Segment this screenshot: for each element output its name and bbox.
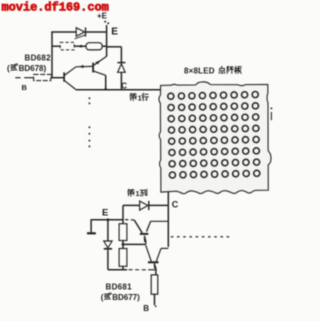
diode D2 C-E protection (cathode up) bbox=[117, 62, 125, 64]
diode D1 B-E (anode left) bbox=[76, 28, 84, 37]
resistor R1 internal (dashed body) bbox=[60, 42, 74, 50]
transistor Q1 small PNP bbox=[63, 72, 65, 81]
wire diode to collector rail bbox=[120, 72, 122, 90]
resistor R6 base series (bottom) bbox=[151, 275, 158, 294]
LED matrix board outline (torn edge) bbox=[159, 82, 271, 194]
transistor Q3 small NPN bbox=[134, 220, 142, 233]
wire base resistor to Q1 bbox=[51, 77, 64, 79]
svg-text:(: ( bbox=[7, 64, 10, 73]
resistor R5 lower bbox=[122, 244, 124, 248]
wire Q4 emitter to B resistor bbox=[155, 268, 157, 275]
node collector junction bbox=[105, 88, 107, 90]
svg-text:+E: +E bbox=[97, 12, 108, 21]
transistor Q2 power PNP bbox=[92, 63, 94, 73]
svg-text:B: B bbox=[22, 83, 28, 92]
wire emitter vertical to +E bbox=[106, 25, 108, 57]
svg-text:E: E bbox=[111, 27, 118, 38]
wire E to D4 bbox=[107, 220, 109, 241]
svg-text:1: 1 bbox=[136, 189, 140, 198]
wire top branch (E to C diode) bbox=[123, 204, 140, 206]
wire E rail dashed continuation bbox=[125, 219, 134, 221]
wire bottom rail partly dashed bbox=[129, 269, 149, 271]
svg-text:BD678): BD678) bbox=[19, 64, 47, 73]
svg-text:BD682: BD682 bbox=[25, 53, 52, 62]
wire junction to Q4 emitter node bbox=[123, 243, 146, 245]
svg-text:C: C bbox=[172, 199, 179, 209]
resistor R3 base series bbox=[34, 74, 51, 80]
wire left vertical bus bbox=[51, 31, 53, 78]
node junction dot between R1 R2 bbox=[80, 45, 83, 48]
LED matrix pads 8 rows bbox=[168, 91, 260, 178]
wire Q1 emitter to Q2 base with PNP arrow bbox=[76, 65, 93, 67]
svg-text:BD677): BD677) bbox=[112, 293, 140, 302]
resistor R4 upper bbox=[122, 220, 124, 224]
wire corner down from top branch bbox=[122, 205, 124, 220]
wire C rail vertical bbox=[167, 205, 169, 247]
wire resistor branch segment bbox=[52, 45, 60, 47]
svg-text:8×8LED: 8×8LED bbox=[184, 66, 215, 75]
label column wire 第1列 bbox=[128, 189, 134, 196]
wire collector rail to LED board row 1 bbox=[77, 89, 161, 91]
node E junction dot bbox=[106, 218, 109, 221]
wire B lead-in dashes bbox=[15, 77, 20, 79]
svg-text:C: C bbox=[121, 81, 127, 90]
label row wire 第1行 bbox=[130, 93, 136, 100]
resistor R2 internal (pill body) bbox=[86, 43, 102, 50]
wire break dots below +E bbox=[104, 21, 106, 23]
wire stub to C-E diode bbox=[107, 46, 122, 48]
ellipsis dots more column drivers bbox=[171, 236, 174, 237]
node junction dot R4-R5 bbox=[122, 243, 125, 246]
svg-text:movie.df169.com: movie.df169.com bbox=[2, 1, 109, 15]
wire Q3 emitter down to node bbox=[145, 242, 147, 245]
ground symbol bbox=[90, 220, 92, 232]
wire D4 down and corner right bbox=[107, 250, 109, 270]
wire E rail bbox=[91, 219, 124, 221]
diode D3 E-C protection (anode left) bbox=[140, 201, 148, 210]
wire top diode branch right bbox=[86, 31, 107, 33]
svg-text:1: 1 bbox=[138, 94, 142, 103]
svg-text:B: B bbox=[143, 304, 149, 313]
diode D4 (cathode down) bbox=[104, 241, 112, 248]
wire Q3 collector to C rail bbox=[150, 220, 168, 222]
transistor Q4 power NPN bbox=[146, 245, 152, 261]
ellipsis dots more row drivers bbox=[88, 97, 90, 99]
wire Q2 collector down bbox=[105, 75, 107, 90]
board continuation mark right bbox=[270, 107, 272, 109]
svg-text:E: E bbox=[102, 208, 108, 219]
wire top diode branch left bbox=[52, 31, 77, 33]
wire LED column 1 down to C bbox=[167, 192, 169, 206]
svg-text:(: ( bbox=[101, 293, 104, 302]
wire R6 to B terminal bbox=[154, 294, 156, 305]
svg-text:BD681: BD681 bbox=[106, 283, 133, 292]
wire R2 to emitter line bbox=[102, 45, 106, 47]
wire between R1 and R2 bbox=[74, 45, 86, 47]
